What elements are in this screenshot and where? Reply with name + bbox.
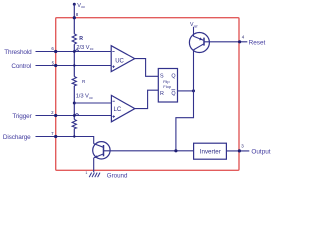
- wire trigger: [36, 115, 112, 117]
- svg-text:UC: UC: [115, 58, 124, 64]
- wire LC output to R: [135, 90, 159, 108]
- wire control: [36, 65, 112, 67]
- svg-text:Q: Q: [171, 91, 175, 97]
- svg-text:Flop: Flop: [163, 84, 172, 89]
- svg-text:Trigger: Trigger: [12, 113, 32, 120]
- node inverter input junction: [174, 149, 177, 152]
- wire Q-bar to node: [178, 90, 194, 92]
- svg-text:1/3 V: 1/3 V: [76, 94, 89, 100]
- svg-text:R: R: [160, 91, 164, 97]
- Vcc terminal: [73, 3, 76, 6]
- wire R2 to R3: [73, 86, 75, 120]
- svg-text:cc: cc: [81, 5, 85, 9]
- op-amp LC (lower comparator): [111, 95, 134, 121]
- svg-text:1: 1: [85, 171, 87, 175]
- wire Vref stub: [193, 27, 195, 37]
- wire Q1 base to reset pin: [204, 41, 247, 43]
- wire inverter output: [226, 150, 249, 152]
- svg-text:Discharge: Discharge: [3, 134, 31, 141]
- wire discharge: [36, 137, 94, 144]
- svg-text:cc: cc: [90, 47, 94, 51]
- node Q-bar junction: [192, 89, 195, 92]
- svg-text:Control: Control: [11, 63, 31, 70]
- svg-text:ref: ref: [194, 25, 198, 29]
- pin 4: [238, 40, 241, 43]
- resistor R2: [72, 77, 76, 86]
- wire Q2 emitter to ground: [93, 158, 95, 172]
- resistor R3: [72, 119, 76, 128]
- svg-text:LC: LC: [114, 107, 122, 113]
- flip-flop U2: [158, 69, 177, 103]
- svg-text:Threshold: Threshold: [4, 49, 32, 56]
- svg-text:Output: Output: [251, 148, 270, 155]
- resistor R1: [72, 34, 76, 44]
- svg-text:R: R: [79, 36, 83, 42]
- svg-text:cc: cc: [89, 96, 93, 100]
- wire Q2 base / inverter input: [104, 150, 194, 152]
- transistor Q2 (discharge, NPN): [93, 142, 110, 159]
- wire threshold: [36, 51, 112, 53]
- inverter U3: [194, 143, 227, 159]
- svg-text:Reset: Reset: [249, 39, 266, 46]
- wire R1 to R2: [73, 44, 75, 76]
- pin 3: [238, 149, 241, 152]
- ground: [89, 173, 100, 178]
- transistor Q1 (reset, PNP): [189, 33, 209, 53]
- IC package boundary (red box): [56, 18, 239, 171]
- svg-text:Inverter: Inverter: [200, 148, 221, 155]
- wire 1/3 node to LC: [74, 102, 111, 104]
- wire Q1 collector down to flip-flop net: [176, 50, 194, 151]
- op-amp UC (upper comparator): [111, 46, 135, 72]
- wire R3 to discharge line: [73, 129, 75, 137]
- pin 8: [73, 16, 76, 19]
- wire Vcc to pin 8: [73, 4, 75, 34]
- svg-text:Ground: Ground: [107, 172, 128, 179]
- wire UC output to S: [135, 59, 159, 77]
- svg-text:Q: Q: [171, 74, 175, 80]
